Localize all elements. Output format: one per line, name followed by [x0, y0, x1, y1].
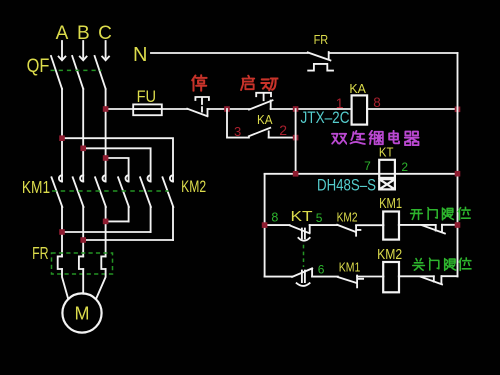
limit switch label 关门限位 — [413, 258, 472, 271]
limit switch close-door NC contact — [421, 276, 442, 284]
svg-text:KA: KA — [257, 113, 273, 127]
thermal relay FR heater element 1 — [58, 256, 62, 269]
wire row C segment 3 — [356, 224, 383, 226]
node junction dot row C left — [262, 222, 268, 228]
node junction dot crossover B — [80, 237, 86, 243]
wire vertical row A to row B — [295, 109, 297, 174]
wire phase C vertical — [105, 89, 107, 182]
node junction dot row B — [293, 171, 299, 177]
contactor KM2 main contact pole 1 — [118, 175, 129, 207]
svg-text:KA: KA — [349, 82, 366, 96]
svg-text:QF: QF — [27, 56, 50, 77]
wire crossover KM2-3 to phase B — [83, 239, 173, 241]
wire phase A incoming arrow — [59, 41, 66, 60]
svg-text:8: 8 — [373, 95, 381, 110]
svg-text:JTX–2C: JTX–2C — [301, 108, 350, 127]
svg-text:2: 2 — [401, 160, 408, 174]
breaker QF pole 3 blade — [95, 56, 106, 89]
svg-text:FU: FU — [137, 87, 157, 106]
fuse FU body — [133, 104, 162, 115]
svg-text:KM2: KM2 — [181, 177, 206, 196]
node junction dot row A / latch right — [293, 106, 299, 112]
node junction dot row C right rail — [455, 222, 461, 228]
node junction dot after stop — [224, 106, 230, 112]
wire row D segment 5 — [442, 275, 458, 277]
wire row C segment 2 — [310, 224, 338, 226]
wire row A start to KA coil — [271, 108, 352, 110]
svg-text:6: 6 — [318, 262, 325, 276]
thermal relay FR heater element 3 — [101, 256, 105, 269]
wire row C left — [265, 224, 290, 226]
node junction dot phase C feed — [103, 155, 109, 161]
limit switch label 开门限位 — [411, 207, 471, 220]
thermal relay FR dashed box — [52, 253, 113, 274]
thermal relay FR trip symbol — [308, 64, 333, 71]
start button SB2 NO contact — [249, 100, 273, 109]
wire KA latch branch right — [269, 137, 296, 139]
wire row D left — [265, 276, 293, 278]
wire phase A vertical — [61, 89, 63, 182]
contactor KM2 main contact pole 2 — [140, 175, 151, 207]
timer KT delayed NO contact (row D) — [292, 268, 312, 282]
wire row A KA coil to right rail — [367, 108, 457, 110]
svg-text:FR: FR — [314, 32, 329, 47]
timer label 双延继电器 — [332, 131, 419, 145]
wire row C segment 5 — [442, 224, 458, 226]
node junction dot phase B feed — [80, 146, 86, 152]
svg-text:KM1: KM1 — [22, 177, 50, 197]
node junction dot crossover C — [103, 219, 109, 225]
contactor coil KM2 — [383, 262, 399, 292]
stop button SB1 actuator — [195, 97, 209, 112]
stop button SB1 NC contact — [187, 109, 207, 117]
wire phase C to KM2 feed — [106, 158, 129, 182]
node junction dot phase A feed — [59, 135, 65, 141]
timer KT delayed NC contact (row C) — [290, 225, 310, 238]
timer linkage dashed — [303, 245, 305, 267]
contactor linkage dashed KM1-KM2 — [52, 190, 169, 192]
svg-text:KM1: KM1 — [339, 261, 361, 275]
wire left rail rows B-D — [264, 174, 266, 277]
contactor KM2 NC interlock contact — [337, 225, 360, 236]
wire row A stop to start — [208, 108, 250, 110]
wire KM1 pole outputs down — [62, 207, 106, 257]
wire crossover KM2-1 to phase C — [106, 220, 129, 222]
contactor KM1 main contact pole 1 — [52, 175, 63, 207]
thermal relay FR heater element 2 — [79, 256, 83, 269]
svg-text:DH48S–S: DH48S–S — [317, 176, 376, 195]
start button SB2 actuator — [256, 93, 271, 100]
wire row B — [265, 173, 458, 175]
relay coil KA — [352, 95, 368, 124]
svg-text:5: 5 — [316, 211, 323, 225]
contactor KM1 main contact pole 3 — [95, 175, 106, 207]
svg-text:N: N — [133, 44, 147, 66]
breaker QF linkage dashed — [51, 69, 102, 71]
contactor KM1 NC interlock contact — [338, 276, 363, 288]
wire phase C incoming arrow — [102, 41, 109, 60]
wire phase B to KM2 feed — [83, 148, 150, 181]
stop button label 停 — [192, 75, 206, 91]
node junction dot phase C / control tap — [103, 106, 109, 112]
breaker QF pole 1 blade — [51, 56, 62, 89]
wire row C segment 4 — [399, 224, 436, 226]
svg-text:3: 3 — [234, 124, 241, 139]
svg-text:2: 2 — [279, 122, 287, 138]
svg-text:KM1: KM1 — [379, 196, 402, 212]
wire phase B vertical — [82, 89, 84, 182]
relay KA latch NO contact (terminals 3-2) — [249, 128, 270, 138]
wire right rail — [457, 53, 459, 277]
svg-text:7: 7 — [364, 159, 371, 173]
wire row D segment 3 — [357, 276, 383, 278]
wire control tap from phase C to fuse — [106, 108, 188, 110]
contactor KM1 main contact pole 2 — [73, 175, 84, 207]
svg-text:M: M — [75, 303, 90, 323]
node junction dot row B right rail — [455, 171, 461, 177]
wire neutral line — [151, 52, 458, 54]
breaker QF pole 2 blade — [72, 56, 83, 89]
motor M circle — [62, 293, 101, 332]
wire row D segment 4 — [399, 275, 434, 277]
thermal relay FR NC contact blade — [308, 52, 331, 60]
svg-text:KT: KT — [379, 145, 394, 160]
contactor KM2 main contact pole 3 — [163, 175, 174, 207]
wire crossover KM2-2 to phase A — [62, 231, 151, 233]
svg-text:8: 8 — [271, 210, 278, 224]
svg-text:KM2: KM2 — [377, 247, 402, 263]
wire KA latch branch left — [227, 109, 249, 138]
contactor coil KM1 — [383, 212, 399, 240]
wire KM2 pole outputs down — [129, 207, 173, 240]
svg-text:FR: FR — [32, 243, 49, 263]
wire phase A to KM2 feed — [62, 138, 173, 181]
svg-text:KM2: KM2 — [337, 211, 358, 225]
wire motor leads — [62, 269, 106, 299]
timer delay element box — [379, 179, 395, 189]
start button label 启动 — [241, 75, 278, 90]
node junction dot latch bottom — [293, 135, 299, 141]
svg-text:KT: KT — [291, 208, 313, 225]
wire row D segment 2 — [312, 276, 338, 278]
node junction dot crossover A — [59, 229, 65, 235]
wire phase B incoming arrow — [80, 41, 87, 60]
limit switch open-door NC contact — [422, 225, 445, 234]
node junction dot row A right rail — [455, 107, 461, 113]
timer coil KT — [379, 160, 395, 178]
